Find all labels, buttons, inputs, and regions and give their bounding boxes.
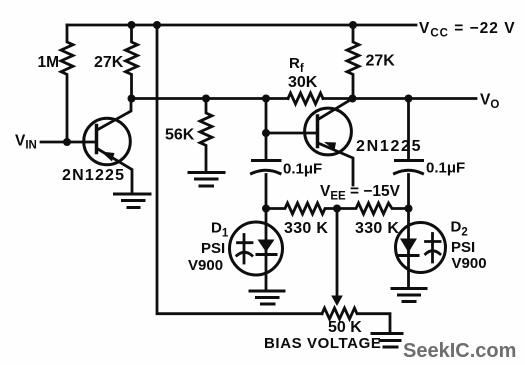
- svg-text:PSI: PSI: [201, 240, 225, 257]
- wire base Q2: [266, 132, 318, 135]
- node junction dots: [63, 21, 413, 213]
- svg-text:2N1225: 2N1225: [356, 138, 422, 155]
- potentiometer R8 50K: [322, 308, 390, 332]
- ground G4 under D2: [392, 289, 426, 302]
- svg-text:V900: V900: [452, 255, 487, 272]
- resistor R6 330K left: [266, 203, 337, 214]
- svg-text:2N1225: 2N1225: [62, 167, 125, 184]
- ground G1 under Q1 emitter: [115, 194, 151, 208]
- resistor R7 330K right: [337, 203, 409, 214]
- transistor Q2 2N1225: [305, 99, 353, 186]
- varactor D1: [230, 209, 283, 291]
- arrow wiper head: [331, 296, 343, 307]
- resistor R4 Rf 30K: [288, 93, 323, 104]
- wire VIN to base Q1: [41, 141, 97, 144]
- wire collector bus right to Vo: [323, 97, 476, 100]
- resistor R3 27K right: [347, 25, 359, 99]
- resistor R2 27K left: [126, 25, 138, 99]
- ground G3 under D1: [250, 291, 284, 304]
- ground G5 bias: [372, 334, 402, 348]
- ground G2 under 56K: [189, 173, 224, 187]
- wire C2 top lead: [407, 99, 410, 159]
- resistor R1 1M: [61, 25, 73, 142]
- svg-text:SeekIC.com: SeekIC.com: [403, 340, 516, 362]
- svg-text:27K: 27K: [366, 53, 396, 70]
- wire C1 bottom lead: [265, 175, 268, 209]
- wire top VCC rail: [67, 24, 416, 27]
- capacitor C2 0.1uF: [395, 161, 423, 174]
- svg-text:330 K: 330 K: [284, 220, 328, 237]
- resistor R5 56K: [200, 99, 212, 172]
- svg-text:50 K: 50 K: [328, 319, 362, 336]
- svg-text:0.1μF: 0.1μF: [426, 160, 465, 177]
- wire C1 top lead: [265, 99, 268, 159]
- wire bias long (top rail down and along bottom): [157, 25, 322, 314]
- svg-text:1M: 1M: [38, 54, 60, 71]
- svg-text:0.1μF: 0.1μF: [283, 161, 322, 178]
- svg-text:BIAS VOLTAGE: BIAS VOLTAGE: [264, 335, 381, 352]
- svg-text:PSI: PSI: [451, 239, 475, 256]
- svg-text:56K: 56K: [165, 127, 195, 144]
- wire potentiometer wiper: [336, 209, 339, 298]
- wire collector bus left: [132, 97, 289, 100]
- transistor Q1 2N1225: [84, 99, 132, 194]
- wire C2 bottom lead: [407, 175, 410, 209]
- svg-text:V900: V900: [188, 257, 223, 274]
- svg-text:30K: 30K: [288, 74, 318, 91]
- svg-text:27K: 27K: [94, 54, 124, 71]
- varactor D2: [396, 209, 446, 287]
- svg-text:330 K: 330 K: [355, 220, 399, 237]
- capacitor C1 0.1uF: [252, 161, 281, 174]
